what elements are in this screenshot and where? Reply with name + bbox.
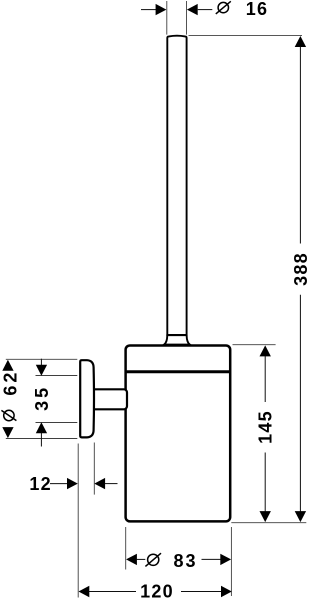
dimension 145: top extension line (233, 344, 276, 346)
dimension Ø83: right extension line (shared with 120) (230, 527, 232, 596)
dimension Ø16: diameter symbol (216, 1, 231, 14)
dimension Ø83: right tail line (202, 558, 222, 560)
svg-text:12: 12 (29, 474, 51, 494)
dimension 12: right extension line (93, 443, 95, 495)
lid joint line (125, 370, 231, 373)
wall plane extension line (77, 444, 79, 598)
dimension Ø16: right extension line (186, 1, 188, 35)
dimension 35: lower extension line (36, 422, 78, 424)
dimension 12: left arrow (pointing right) (67, 478, 78, 489)
svg-text:120: 120 (140, 581, 174, 600)
dimension Ø62: top extension line (6, 358, 78, 360)
svg-text:145: 145 (256, 410, 276, 444)
handle rod (167, 36, 186, 335)
dimension Ø83: right arrow (pointing right) (220, 554, 231, 565)
svg-text:62: 62 (1, 370, 21, 396)
svg-text:83: 83 (173, 551, 197, 571)
dimension 388: bottom arrow (pointing down) (295, 511, 306, 522)
dimension 120: left arrow (pointing left) (79, 586, 90, 597)
dimension Ø83: diameter symbol (145, 553, 161, 566)
mounting arm (92, 389, 127, 409)
dimension 388: top extension line (189, 35, 303, 37)
dimension Ø62: bottom arrow (pointing down) (2, 427, 13, 438)
bottom-right extension line (holder bottom) (231, 522, 306, 524)
holder body (glass + lid outline) (126, 345, 231, 521)
svg-text:35: 35 (32, 385, 52, 411)
dimension 120: right tail line (181, 591, 222, 593)
dimension Ø16: left arrow (pointing right) (156, 4, 167, 15)
dimension 12: right tail line (105, 483, 118, 485)
dimension Ø83: left tail line (136, 558, 145, 560)
dimension 145: line upper segment (264, 356, 266, 402)
dimension 120: right arrow (pointing right) (221, 586, 232, 597)
wall rosette disc (80, 360, 94, 437)
dimension 35: lower arrow (pointing up) (36, 422, 47, 433)
dimension 120: left tail line (89, 591, 136, 593)
dimension Ø16: right tail line (198, 9, 213, 11)
dimension 12: right arrow (pointing left) (94, 478, 105, 489)
dimension Ø83: left arrow (pointing left) (126, 554, 137, 565)
dimension 145: top arrow (pointing up) (260, 345, 271, 356)
dimension Ø16: right arrow (pointing left) (187, 4, 198, 15)
dimension 388: line lower segment (299, 295, 301, 512)
dimension Ø16: left extension line (166, 1, 168, 35)
dimension 35: upper stub line (40, 359, 42, 366)
dimension 35: upper extension line (36, 375, 78, 377)
handle flare (164, 335, 190, 344)
dimension 35: upper arrow (pointing down) (36, 365, 47, 376)
dimension 12: left tail line (50, 483, 68, 485)
dimension 388: top arrow (pointing up) (295, 36, 306, 47)
dimension 35: lower stub line (40, 433, 42, 447)
dimension Ø16: left tail line (141, 9, 156, 11)
dimension Ø62: diameter symbol (rotated) (1, 410, 16, 420)
dimension 388: line upper segment (299, 47, 301, 244)
dimension Ø62: top arrow (pointing up) (2, 360, 13, 371)
svg-text:16: 16 (246, 0, 268, 19)
dimension Ø62: bottom extension line (6, 438, 78, 440)
svg-text:388: 388 (291, 252, 308, 286)
dimension Ø83: left extension line (125, 527, 127, 570)
dimension 145: line lower segment (264, 453, 266, 513)
dimension 145: bottom arrow (pointing down) (260, 511, 271, 522)
